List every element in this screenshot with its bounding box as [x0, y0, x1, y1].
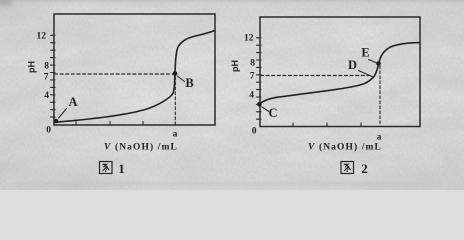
- left x-axis tick marks: [76, 122, 143, 125]
- paper background: [0, 0, 464, 190]
- right titration curve: [259, 43, 420, 105]
- svg-text:A: A: [68, 95, 77, 109]
- pointer line from D to curve: [359, 71, 373, 77]
- svg-text:a: a: [173, 130, 178, 140]
- svg-text:B: B: [185, 76, 193, 90]
- svg-text:D: D: [348, 58, 357, 72]
- svg-text:a: a: [377, 133, 382, 143]
- svg-text:0: 0: [46, 126, 51, 136]
- left y-axis tick marks: [51, 35, 56, 117]
- pointer line to A label: [59, 109, 67, 119]
- left dashed line at V=a: [174, 77, 176, 125]
- left plot box frame: [54, 14, 215, 125]
- point C dot at curve start: [257, 102, 262, 107]
- svg-text:C: C: [268, 106, 277, 120]
- svg-text:1: 1: [118, 161, 125, 176]
- right dashed line pH7 to D: [261, 75, 373, 77]
- svg-text:0: 0: [252, 127, 257, 137]
- svg-text:E: E: [361, 46, 369, 60]
- svg-text:V (NaOH) /mL: V (NaOH) /mL: [104, 142, 178, 153]
- point B dot: [173, 71, 178, 76]
- svg-text:4: 4: [44, 91, 49, 101]
- svg-text:7: 7: [250, 72, 255, 82]
- svg-text:pH: pH: [230, 60, 240, 72]
- point A dot at curve start: [54, 119, 59, 124]
- point E dot: [376, 61, 381, 66]
- right x-axis tick marks: [293, 123, 361, 126]
- svg-text:2: 2: [361, 161, 368, 176]
- right y-axis tick marks: [257, 38, 262, 119]
- svg-text:12: 12: [244, 34, 254, 44]
- svg-text:8: 8: [250, 59, 255, 69]
- left dashed line pH7 to B: [55, 73, 175, 75]
- left titration curve: [56, 31, 215, 123]
- pointer line to C label: [262, 107, 269, 112]
- scan smudges: [0, 0, 464, 185]
- caption 图 1 glyph: [100, 162, 113, 174]
- svg-text:12: 12: [37, 32, 47, 42]
- svg-text:8: 8: [44, 61, 49, 71]
- svg-text:V (NaOH) /mL: V (NaOH) /mL: [308, 142, 382, 153]
- right plot box frame: [260, 17, 420, 127]
- pointer line from E to dot: [369, 60, 376, 63]
- right dashed line at V=a: [379, 66, 381, 126]
- pointer line to B label: [177, 76, 184, 82]
- svg-text:pH: pH: [27, 61, 37, 73]
- svg-text:7: 7: [44, 73, 49, 83]
- svg-text:4: 4: [249, 91, 254, 101]
- caption 图 2 glyph: [341, 162, 354, 174]
